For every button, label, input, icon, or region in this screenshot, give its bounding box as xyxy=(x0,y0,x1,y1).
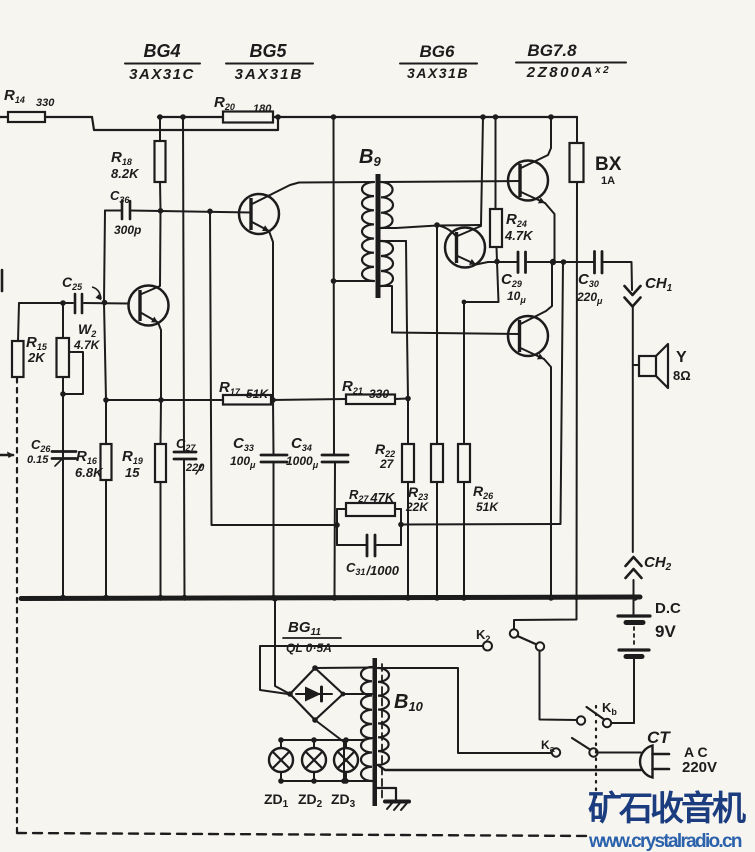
wire B9 sec lower bottom lead xyxy=(381,286,392,333)
capacitor C30 xyxy=(576,252,603,307)
wire input stub xyxy=(0,452,14,459)
wire bus to K2 xyxy=(514,598,577,629)
node BG7 collector branch xyxy=(548,114,554,120)
svg-text:B9: B9 xyxy=(359,146,381,169)
node B9 branch xyxy=(331,114,337,120)
wire BG5 emitter xyxy=(252,222,273,400)
svg-text:9V: 9V xyxy=(655,622,676,641)
wire B9 primary bottom lead xyxy=(334,280,375,282)
wire B9 sec upper bottom lead xyxy=(381,225,481,228)
svg-text:BG7.8: BG7.8 xyxy=(527,41,577,60)
wire B10 sec bottom lead xyxy=(378,765,641,770)
node R18 top xyxy=(157,114,163,120)
wire loop left xyxy=(336,509,338,545)
node bridge top xyxy=(312,665,318,671)
ground xyxy=(377,788,409,810)
wire BG5 collector to B9 xyxy=(252,183,299,205)
node bus R22 xyxy=(405,595,411,601)
svg-text:ZD2: ZD2 xyxy=(298,791,323,810)
capacitor C36 xyxy=(105,188,141,237)
wire BG8 base line xyxy=(392,333,519,335)
svg-text:CT: CT xyxy=(647,728,671,747)
svg-text:R18: R18 xyxy=(111,149,132,167)
switch Kb xyxy=(577,700,618,727)
svg-text:CH2: CH2 xyxy=(644,554,672,573)
resistor R17 xyxy=(219,379,271,405)
node bus W2 xyxy=(60,595,66,601)
svg-text:R17: R17 xyxy=(219,379,241,397)
svg-text:330: 330 xyxy=(369,387,389,401)
node BG4 emitter R17 junction xyxy=(158,397,164,403)
wire BG6 emitter xyxy=(458,256,489,265)
label BG11 xyxy=(283,619,341,655)
label BG7.8 type xyxy=(516,41,626,81)
transistor BG8 xyxy=(508,316,548,356)
svg-text:8Ω: 8Ω xyxy=(673,368,691,383)
resistor R14 xyxy=(0,87,92,122)
wire bridge top to B10 xyxy=(315,667,372,670)
label ZD3 xyxy=(331,791,356,810)
battery DC 9V cell1 xyxy=(618,597,650,623)
watermark url xyxy=(589,831,741,852)
node bus R16 xyxy=(103,595,109,601)
wire K2 to bridge xyxy=(260,646,483,694)
svg-text:3AX31B: 3AX31B xyxy=(235,66,304,83)
wire Ka to CT xyxy=(598,752,642,754)
wire B9 primary top lead xyxy=(299,181,374,184)
transformer B9 secondary upper coil xyxy=(381,182,393,228)
node bridge bottom xyxy=(312,717,318,723)
svg-text:R24: R24 xyxy=(506,211,527,229)
transformer B9 label xyxy=(359,146,381,169)
svg-text:51K: 51K xyxy=(476,500,499,514)
capacitor C31 xyxy=(337,535,401,578)
potentiometer W2 xyxy=(57,303,101,598)
transformer B10 label xyxy=(394,691,424,714)
node rail bridge join xyxy=(341,778,347,784)
wire loop right xyxy=(400,509,402,545)
wire bridge bottom to rail xyxy=(315,720,344,781)
wire dashed left border vertical xyxy=(16,378,18,833)
wire ZD top rail xyxy=(281,738,372,740)
transformer B9 primary coil xyxy=(362,182,374,281)
svg-text:C30: C30 xyxy=(578,271,599,289)
capacitor C25 xyxy=(19,274,129,313)
capacitor C29 xyxy=(501,252,526,305)
wire R24 to R26 link xyxy=(464,262,499,303)
svg-text:CH1: CH1 xyxy=(645,275,673,294)
wire B10 primary bottom lead xyxy=(344,780,372,782)
label DC xyxy=(655,600,681,641)
rectifier diode xyxy=(296,687,332,702)
svg-text:22K: 22K xyxy=(405,500,429,514)
svg-text:D.C: D.C xyxy=(655,600,681,617)
label BG5 type xyxy=(226,41,313,83)
battery DC 9V cell2 xyxy=(619,650,649,723)
svg-text:180: 180 xyxy=(253,103,272,115)
svg-text:BG6: BG6 xyxy=(420,42,456,61)
capacitor C33 xyxy=(230,400,287,598)
transformer B10 core xyxy=(373,658,378,806)
svg-text:B10: B10 xyxy=(394,691,424,714)
svg-text:R21: R21 xyxy=(342,378,363,396)
svg-text:BG5: BG5 xyxy=(249,41,287,61)
resistor R26 xyxy=(458,302,499,598)
transformer B10 primary coil xyxy=(361,667,372,781)
watermark chinese xyxy=(588,792,743,826)
wire C30 to CH1 xyxy=(604,262,633,290)
node bus BG8 emitter xyxy=(548,595,554,601)
svg-text:15: 15 xyxy=(125,465,140,480)
wire K2 pole down to Kb xyxy=(540,651,578,721)
node R23 top xyxy=(434,222,440,228)
plug CT xyxy=(640,728,717,778)
node loop left xyxy=(334,522,340,528)
label ZD1 xyxy=(264,791,289,810)
wire ground bus xyxy=(21,597,640,599)
label BG4 type xyxy=(125,41,200,83)
wire BG6 collector riser xyxy=(481,117,483,225)
svg-text:330: 330 xyxy=(36,97,55,109)
node bridge right xyxy=(341,692,346,697)
node x210 branch xyxy=(207,209,213,215)
wire B9 sec upper top lead to BG7 base xyxy=(381,181,520,182)
resistor R18 xyxy=(111,117,166,210)
transformer B9 secondary lower coil xyxy=(381,241,393,286)
node bridge left xyxy=(287,691,293,697)
rectifier BG11 diamond xyxy=(290,668,343,720)
svg-text:300p: 300p xyxy=(114,223,141,237)
lamps ZD1 ZD2 ZD3 xyxy=(269,737,358,784)
svg-text:4.7K: 4.7K xyxy=(73,338,101,352)
svg-text:ZD3: ZD3 xyxy=(331,791,356,810)
svg-text:R14: R14 xyxy=(4,87,25,105)
node R14 join xyxy=(275,114,281,120)
svg-text:3AX31C: 3AX31C xyxy=(129,66,195,83)
wire BX top xyxy=(576,117,578,143)
svg-text:2K: 2K xyxy=(27,350,46,365)
svg-text:BG11: BG11 xyxy=(288,619,321,638)
connector CH1 xyxy=(625,275,673,307)
resistor R15 xyxy=(12,303,48,377)
resistor R27 xyxy=(337,487,401,516)
wire left edge stub xyxy=(1,270,4,291)
wire bridge right to B10 xyxy=(343,693,372,695)
svg-text:R26: R26 xyxy=(473,483,494,501)
resistor R16 xyxy=(75,444,112,598)
node BG5 emitter junction xyxy=(270,397,276,403)
node loop right xyxy=(398,522,404,528)
node bus bridge feed xyxy=(272,596,278,602)
svg-text:R19: R19 xyxy=(122,448,143,466)
svg-text:C34: C34 xyxy=(291,435,312,453)
wire B9 sec lower top lead xyxy=(381,240,406,242)
transformer B10 secondary coil xyxy=(378,668,389,765)
capacitor C27 xyxy=(174,436,205,598)
transistor BG4 xyxy=(129,286,169,326)
svg-text:27: 27 xyxy=(379,457,395,471)
speaker Y xyxy=(633,344,691,388)
node R18 bottom xyxy=(158,208,164,214)
svg-text:C26: C26 xyxy=(31,437,51,454)
wire Kb to battery xyxy=(611,722,634,724)
svg-text:R20: R20 xyxy=(214,94,235,112)
svg-text:A C: A C xyxy=(684,744,708,760)
label ZD2 xyxy=(298,791,323,810)
resistor R23 xyxy=(405,225,443,598)
svg-text:C36: C36 xyxy=(110,188,130,205)
svg-text:BG4: BG4 xyxy=(143,41,180,61)
wire C29 to C30 xyxy=(528,261,595,263)
node feedback tap xyxy=(561,259,567,265)
svg-text:6.8K: 6.8K xyxy=(75,465,104,480)
wire BG6 collector xyxy=(458,226,482,236)
node W2 wiper bottom xyxy=(60,391,66,397)
wire R17 line xyxy=(106,399,223,401)
resistor R19 xyxy=(122,400,166,598)
svg-text:C27: C27 xyxy=(176,436,196,453)
resistor R24 xyxy=(490,117,534,262)
wire R14 to top bus xyxy=(92,117,278,130)
node emitter junction xyxy=(550,259,556,265)
svg-text:3AX31B: 3AX31B xyxy=(407,65,469,81)
wire top supply bus xyxy=(158,116,577,118)
wire feedback to C29 node xyxy=(401,523,560,526)
wire emitter output line xyxy=(488,261,518,263)
svg-text:Ka: Ka xyxy=(541,738,556,754)
capacitor C26 xyxy=(27,437,76,466)
svg-text:220V: 220V xyxy=(682,759,717,776)
svg-text:C31/1000: C31/1000 xyxy=(346,560,400,578)
svg-text:2Z800Ax2: 2Z800Ax2 xyxy=(526,64,612,81)
transformer B9 core xyxy=(376,174,381,298)
wire BG6 base curve xyxy=(437,225,457,237)
wire bus x184 down xyxy=(183,117,184,452)
svg-text:C33: C33 xyxy=(233,435,254,453)
resistor R22 xyxy=(375,241,414,598)
svg-text:BX: BX xyxy=(595,154,622,175)
node bus R19 xyxy=(158,595,164,601)
svg-text:QL 0·5A: QL 0·5A xyxy=(286,641,332,655)
node bus R26 xyxy=(461,595,467,601)
capacitor C34 xyxy=(286,435,348,598)
connector CH2 xyxy=(626,554,672,597)
wire BG4 emitter xyxy=(142,313,162,400)
svg-text:100μ: 100μ xyxy=(230,454,256,470)
wire B10 sec top lead xyxy=(378,668,552,753)
wire bus to bridge xyxy=(275,598,290,694)
transformer B10 core dashed xyxy=(381,664,383,800)
node R24 bottom xyxy=(494,259,500,265)
node R24 branch xyxy=(493,114,499,120)
svg-text:1A: 1A xyxy=(601,175,615,187)
svg-text:Y: Y xyxy=(676,349,687,366)
wire C36 to BG5 base xyxy=(130,211,251,213)
transistor BG5 xyxy=(239,194,279,234)
svg-text:1000μ: 1000μ xyxy=(286,454,319,470)
svg-text:C25: C25 xyxy=(62,274,83,292)
svg-text:0.15: 0.15 xyxy=(27,454,49,466)
fuse BX xyxy=(570,143,622,187)
svg-text:51K: 51K xyxy=(246,387,269,401)
node bus battery xyxy=(632,595,638,601)
wire C36 left down to R16 xyxy=(104,211,106,445)
node bus x183 xyxy=(180,114,186,120)
transistor BG7 xyxy=(508,161,548,201)
wire ZD bottom rail xyxy=(281,780,344,782)
svg-text:W2: W2 xyxy=(78,321,96,339)
wire BG7 collector xyxy=(521,117,551,168)
wire speaker line xyxy=(632,307,634,553)
svg-text:C29: C29 xyxy=(501,271,522,289)
node C25 wire join xyxy=(102,300,108,306)
wire R21 right xyxy=(395,398,408,401)
node B9 primary bottom xyxy=(331,278,337,284)
wire feedback down xyxy=(561,262,564,524)
battery dashed middle xyxy=(633,627,635,647)
transistor BG6 xyxy=(445,228,485,268)
wire BG8 emitter xyxy=(521,348,552,598)
node bus C34 xyxy=(332,595,338,601)
wire BG5 base branch down xyxy=(210,211,337,525)
svg-text:R16: R16 xyxy=(76,448,98,466)
svg-text:Kb: Kb xyxy=(602,700,617,717)
resistor R20 xyxy=(214,94,273,123)
svg-text:ZD1: ZD1 xyxy=(264,791,289,810)
node R17 line left end xyxy=(103,397,109,403)
node R21 right end xyxy=(405,396,411,402)
wire dashed border bottom xyxy=(17,833,592,836)
wire BG4 collector xyxy=(142,211,161,294)
label BG6 type xyxy=(400,42,477,81)
svg-text:4.7K: 4.7K xyxy=(504,228,534,243)
svg-text:220μ: 220μ xyxy=(576,290,603,306)
switch K2 xyxy=(476,627,544,651)
wire BG8 collector xyxy=(521,262,553,324)
node R26 top corner xyxy=(462,300,467,305)
node W2 top xyxy=(60,300,66,306)
resistor R21 xyxy=(342,378,395,404)
node BG6 collector branch xyxy=(480,114,486,120)
svg-text:220: 220 xyxy=(185,462,205,474)
wire BG7 emitter xyxy=(521,192,555,262)
node bus R23 xyxy=(434,595,440,601)
node bus BX cross xyxy=(574,595,579,600)
svg-text:8.2K: 8.2K xyxy=(111,166,140,181)
wire BX down xyxy=(576,182,579,619)
svg-text:10μ: 10μ xyxy=(507,289,526,305)
node bus C27 xyxy=(182,595,188,601)
wire switch link dotted xyxy=(595,706,597,798)
node bus C33 xyxy=(271,595,277,601)
wire R17-R21 xyxy=(271,399,346,400)
switch Ka xyxy=(541,738,598,757)
svg-text:K2: K2 xyxy=(476,627,490,644)
wire supply x334 down xyxy=(333,117,336,455)
